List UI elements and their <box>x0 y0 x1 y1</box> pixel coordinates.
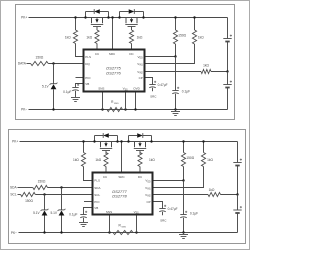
svg-text:CP: CP <box>147 200 151 204</box>
resistor R10 1k (DC gate) <box>138 153 155 173</box>
svg-text:SNS: SNS <box>114 103 119 105</box>
svg-text:SRC: SRC <box>109 52 116 56</box>
svg-text:DQ: DQ <box>85 62 90 66</box>
svg-text:1kΩ: 1kΩ <box>73 158 79 162</box>
svg-text:SNS: SNS <box>98 87 104 91</box>
svg-text:SCL: SCL <box>94 193 100 197</box>
svg-text:0.1μF: 0.1μF <box>63 90 71 94</box>
node cell midpoint circuit 1 <box>226 70 228 72</box>
wire VIN2 with resistor R13 1k <box>153 188 238 197</box>
resistor R11 150ohm (VDD filter) <box>181 140 194 180</box>
node PK- (circuit 2) <box>11 231 17 235</box>
wire PK- rail circuit 2 <box>19 232 238 234</box>
node SCL <box>10 193 16 197</box>
svg-text:PIO: PIO <box>85 76 91 80</box>
svg-text:CP: CP <box>139 76 143 80</box>
svg-text:PIO: PIO <box>94 200 100 204</box>
panel border circuit 2 <box>9 130 246 244</box>
svg-text:PK−: PK− <box>21 108 27 112</box>
battery B1 cell 1 <box>223 35 232 72</box>
svg-text:1kΩ: 1kΩ <box>203 63 209 67</box>
svg-text:150Ω: 150Ω <box>36 55 44 59</box>
svg-text:SRC: SRC <box>160 218 167 222</box>
battery B2 cell 2 <box>223 72 232 110</box>
node DATA <box>18 61 27 65</box>
wire VIN2 with resistor R6 1k <box>145 63 228 73</box>
wire VDD <box>145 55 177 57</box>
battery B3 cell 1 <box>233 159 242 195</box>
svg-text:1kΩ: 1kΩ <box>86 36 92 40</box>
svg-text:1kΩ: 1kΩ <box>137 36 143 40</box>
wire VSS stub circuit 2 <box>136 215 138 233</box>
svg-text:150Ω: 150Ω <box>178 34 186 38</box>
svg-text:1kΩ: 1kΩ <box>95 158 101 162</box>
node SDA <box>10 186 17 190</box>
ground (circuit 2) <box>179 231 188 238</box>
zener diode Z3 5.1V (SDA) <box>50 186 65 233</box>
resistor R2 1k (CC gate) <box>86 30 99 50</box>
svg-text:1kΩ: 1kΩ <box>209 188 215 192</box>
wire PK+ rail <box>29 17 228 19</box>
svg-text:0.47μF: 0.47μF <box>168 207 178 211</box>
svg-text:PK+: PK+ <box>21 15 27 19</box>
resistor R15 150ohm (SCL) <box>18 192 93 203</box>
svg-text:DS2776: DS2776 <box>106 70 121 75</box>
node cell midpoint circuit 2 <box>236 193 238 195</box>
svg-text:150Ω: 150Ω <box>186 156 194 160</box>
zener diode Z2 5.1V (SCL) <box>33 193 48 233</box>
ground (circuit 1) <box>171 108 180 115</box>
svg-text:1kΩ: 1kΩ <box>198 36 204 40</box>
svg-text:PK+: PK+ <box>12 140 18 144</box>
capacitor C2 0.47uF (CP to SRC) <box>145 78 168 99</box>
transistor Q1 with body diode D1 <box>84 9 109 30</box>
node PK+ (circuit 2) <box>12 140 18 144</box>
resistor R12 1k (VIN1) <box>153 140 214 187</box>
svg-text:150Ω: 150Ω <box>25 199 33 203</box>
svg-text:1kΩ: 1kΩ <box>207 158 213 162</box>
svg-text:PLS: PLS <box>94 179 100 183</box>
svg-text:DS2778: DS2778 <box>112 194 127 199</box>
wire SRC pin to rail circuit 2 <box>120 140 122 172</box>
resistor R9 1k (CC gate) <box>95 153 108 173</box>
svg-text:PK−: PK− <box>11 231 17 235</box>
wire VDD circuit 2 <box>153 179 185 181</box>
svg-text:VB: VB <box>85 82 89 86</box>
wire OVD stub <box>134 92 136 111</box>
transistor Q4 with body diode D4 <box>127 133 152 154</box>
svg-text:SRC: SRC <box>118 175 125 179</box>
resistor R4 150ohm (VDD filter) <box>173 16 186 56</box>
svg-text:1kΩ: 1kΩ <box>149 158 155 162</box>
svg-text:SDA: SDA <box>94 186 100 190</box>
node PK+ (circuit 1) <box>21 15 27 19</box>
resistor R8 1k (PLS) <box>73 140 92 180</box>
svg-text:SNS: SNS <box>121 226 126 228</box>
resistor R7 150ohm (DATA) <box>27 55 84 65</box>
capacitor C5 0.47uF (CP to SRC) <box>153 202 178 223</box>
wire SNS stub circuit 2 <box>109 215 111 233</box>
svg-text:5.1V: 5.1V <box>50 211 57 215</box>
svg-text:SRC: SRC <box>150 94 157 98</box>
wire SRC pin to rail <box>111 16 113 49</box>
capacitor C6 0.1uF (VB) <box>69 208 92 227</box>
op-amp U1 DS2775/DS2776 IC body <box>84 50 145 92</box>
svg-text:SNS: SNS <box>106 210 112 214</box>
resistor R1 1k (PLS) <box>65 16 84 56</box>
svg-text:0.47μF: 0.47μF <box>158 83 168 87</box>
capacitor C3 0.1uF (VB) <box>63 84 83 102</box>
svg-text:SDA: SDA <box>10 186 17 190</box>
svg-text:VB: VB <box>94 206 98 210</box>
transistor Q3 with body diode D3 <box>93 133 118 154</box>
resistor RSNS (circuit 1) <box>101 100 126 112</box>
node PK- (circuit 1) <box>21 108 27 112</box>
svg-text:0.1μF: 0.1μF <box>190 211 198 215</box>
wire rail to battery top <box>227 18 229 36</box>
capacitor C4 0.1uF (VDD) <box>180 181 198 233</box>
wire rail to battery top circuit 2 <box>237 142 239 160</box>
svg-text:DATA: DATA <box>18 61 27 65</box>
svg-text:SCL: SCL <box>10 193 16 197</box>
zener diode Z1 5.1V <box>42 62 57 110</box>
svg-text:0.1μF: 0.1μF <box>69 212 77 216</box>
op-amp U2 DS2777/DS2778 IC body <box>93 173 153 215</box>
resistor R3 1k (DC gate) <box>129 30 143 50</box>
image frame <box>1 1 250 250</box>
svg-text:5.1V: 5.1V <box>33 211 40 215</box>
svg-text:150Ω: 150Ω <box>38 179 46 183</box>
resistor R14 150ohm (SDA) <box>18 179 93 189</box>
wire PIO stub <box>76 77 84 79</box>
wire PK- rail <box>29 109 228 111</box>
svg-text:OVD: OVD <box>133 87 140 91</box>
wire VSS stub <box>125 92 127 110</box>
resistor RSNS (circuit 2) <box>108 224 137 235</box>
wire PIO stub circuit 2 <box>84 201 93 203</box>
wire SNS stub <box>102 92 104 110</box>
svg-text:5.1V: 5.1V <box>42 85 49 89</box>
resistor R5 1k (VIN1) <box>145 16 205 63</box>
transistor Q2 with body diode D2 <box>118 9 144 30</box>
panel border circuit 1 <box>16 5 235 120</box>
svg-text:0.1μF: 0.1μF <box>182 90 190 94</box>
capacitor C1 0.1uF (VDD) <box>172 57 190 110</box>
battery B4 cell 2 <box>233 195 242 233</box>
svg-text:PLS: PLS <box>85 55 91 59</box>
svg-text:1kΩ: 1kΩ <box>65 36 71 40</box>
wire PK+ rail circuit 2 <box>20 141 238 143</box>
